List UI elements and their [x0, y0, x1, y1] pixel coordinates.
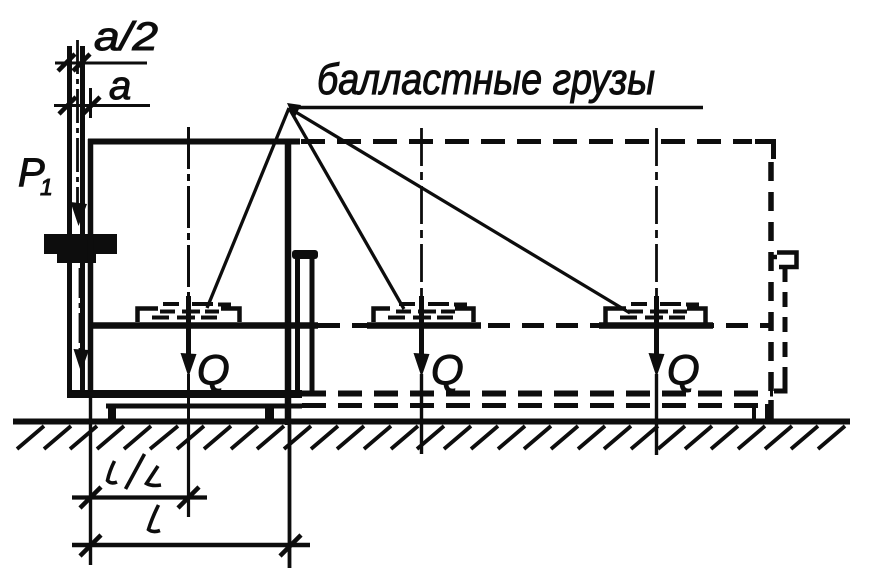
dimension extension line at frame left	[89, 398, 92, 565]
load block (solid black)	[44, 234, 117, 263]
frame left upright extension above corner	[89, 88, 92, 118]
svg-text:балластные грузы: балластные грузы	[317, 55, 655, 104]
svg-text:a/2: a/2	[94, 15, 158, 59]
force P1 dash-dot line with upper arrow	[71, 40, 88, 226]
dimension extension line at centerline Q1	[187, 425, 190, 517]
centerline and force Q3	[649, 128, 665, 455]
svg-text:a: a	[109, 64, 131, 108]
centerline and force Q2	[414, 128, 430, 454]
centerline and force Q1	[181, 127, 197, 425]
svg-text:Q: Q	[667, 346, 700, 393]
lower rail (solid)	[106, 404, 302, 409]
svg-text:Q: Q	[431, 346, 464, 393]
label l/2	[108, 454, 162, 489]
leader underline of title	[289, 106, 703, 110]
lower rail shifted position (dashed)	[302, 403, 760, 408]
support feet right (shifted position)	[754, 404, 767, 420]
ballast weight 2	[374, 304, 474, 322]
leader line to ballast 1	[207, 108, 289, 308]
force P1 lower arrow below block	[74, 268, 90, 372]
dimension line l/2	[72, 487, 207, 508]
bottom chord (solid)	[67, 390, 302, 398]
support foot 1	[108, 408, 116, 420]
support post with cap, shifted position (dashed, right)	[770, 162, 797, 421]
left post bottom corner	[70, 388, 96, 394]
dimension line a	[54, 97, 150, 114]
bottom chord shifted position (dashed)	[302, 391, 773, 397]
support foot 2	[265, 408, 274, 420]
shelf chord (solid)	[90, 322, 318, 329]
dimension line a/2	[55, 54, 147, 71]
svg-text:1: 1	[40, 174, 53, 200]
frame left upright	[88, 139, 94, 398]
leader line to ballast 2	[289, 108, 404, 309]
shelf chord shifted position (dashed)	[318, 323, 770, 328]
ground line	[13, 419, 850, 425]
label l	[149, 505, 161, 532]
frame top chord shifted position (dashed)	[301, 139, 752, 144]
frame right upright	[285, 139, 292, 425]
svg-text:Q: Q	[197, 346, 230, 393]
solid shelf segment under ballast 3	[599, 322, 713, 329]
frame top chord (solid)	[88, 139, 300, 145]
leader arrow junction	[287, 103, 301, 119]
left loading post (double vertical lines)	[70, 46, 83, 393]
leader line to ballast 3	[289, 108, 630, 313]
right upright dimension extension below ground	[288, 425, 292, 568]
ballast weight 3	[606, 304, 706, 323]
dimension line l	[72, 535, 310, 556]
solid shelf segment under ballast 2	[367, 322, 481, 329]
support post with cap (solid)	[292, 250, 318, 396]
ground hatching	[17, 426, 845, 449]
ballast weight 1	[138, 304, 240, 322]
